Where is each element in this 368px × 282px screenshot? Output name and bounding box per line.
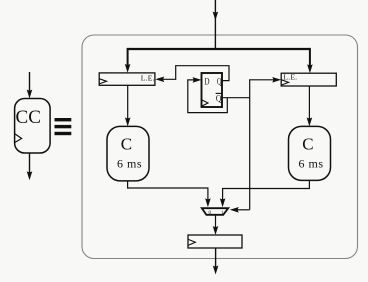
multiplexer MUX <box>202 208 228 216</box>
wire: main output arrow (bottom) <box>213 248 219 275</box>
equivalence symbol <box>55 118 72 135</box>
wire: top distribution bus <box>128 48 310 50</box>
container rounded box <box>82 35 358 259</box>
wire: arrow into R2 latch-enable <box>249 77 281 83</box>
wire: Qbar feedback loop to D input <box>188 77 228 113</box>
svg-text:C: C <box>121 134 132 153</box>
wire: mux output to R3 <box>213 215 219 235</box>
register R2 (right) <box>281 72 336 86</box>
svg-text:L.E.: L.E. <box>283 72 297 81</box>
wire: input arrow into CC block <box>27 72 33 99</box>
wire: output arrow from CC block <box>27 153 33 180</box>
wire: R1 output to C1 <box>125 85 131 126</box>
wire: Qbar output horizontal <box>222 97 250 99</box>
svg-text:Q: Q <box>217 77 222 87</box>
wire: bus drop to left register <box>125 48 131 73</box>
wire: R2 output to C2 <box>307 86 313 126</box>
wire: mux select arrow <box>230 207 250 213</box>
register R1 (left) <box>99 73 155 85</box>
svg-text:Q: Q <box>216 94 222 104</box>
svg-text:D: D <box>205 77 210 87</box>
flip-flop U1 (D latch) <box>202 73 223 107</box>
wire: C1 output to mux input 0 <box>128 181 211 207</box>
svg-text:CC: CC <box>16 107 41 128</box>
svg-text:C: C <box>302 134 313 153</box>
wire: C2 output to mux input 1 <box>220 180 310 207</box>
svg-text:6 ms: 6 ms <box>117 157 142 171</box>
wire: main input arrow (top) <box>213 0 219 49</box>
wire: Qbar vertical to R2 latch-enable and mux select <box>249 80 251 210</box>
wire: bus drop to right register <box>307 48 313 73</box>
counter C1 (left, 6 ms) <box>107 126 149 180</box>
svg-text:L.E.: L.E. <box>141 74 155 83</box>
register R3 (output) <box>188 235 242 248</box>
svg-text:6 ms: 6 ms <box>299 157 324 171</box>
counter C2 (right, 6 ms) <box>289 126 331 180</box>
wire: Q net from flip-flop to R1 latch-enable <box>155 66 229 82</box>
component CC block (left symbol) <box>15 99 51 154</box>
